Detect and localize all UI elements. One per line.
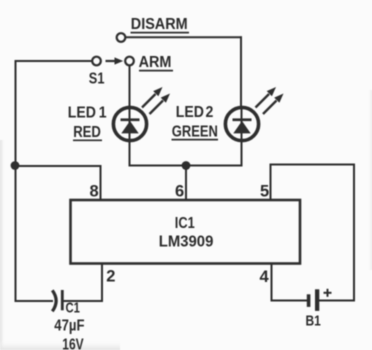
svg-text:IC1: IC1 [175,215,195,233]
edge shading [0,90,372,350]
wire LED2 to bottom [241,107,243,166]
wire LED bottom bus [130,165,242,167]
wire pin2 riser [101,264,103,302]
svg-text:4: 4 [260,268,270,286]
wire arm to LED1 [129,66,131,166]
wire pin6 riser [185,166,187,201]
switch terminal DISARM [117,33,126,42]
node junction left [11,161,20,170]
wire cap left [16,300,53,302]
LED1 [113,87,170,141]
svg-text:5: 5 [260,182,269,200]
label DISARM [131,15,190,33]
IC1 LM3909 box [71,200,301,264]
svg-text:LED: LED [68,103,96,121]
svg-text:DISARM: DISARM [131,15,188,33]
svg-text:ARM: ARM [139,53,172,71]
wire pin4 to battery [272,300,307,302]
label ARM [139,53,173,71]
svg-text:RED: RED [73,124,101,141]
wire pin5 riser [270,165,272,201]
LED2 [225,87,283,141]
svg-text:6: 6 [175,183,184,201]
svg-text:LED: LED [176,103,204,121]
svg-text:GREEN: GREEN [172,123,218,141]
switch S1 [92,57,134,66]
svg-text:LM3909: LM3909 [159,233,214,251]
wire disarm vertical to LED2 [240,37,242,107]
wire pin8 riser [100,166,102,200]
capacitor C1 [52,290,62,311]
node junction pin6 [182,161,191,170]
svg-text:47µF: 47µF [54,317,84,334]
wire pin4 riser [271,264,273,301]
wire junction to pin8 [16,165,101,167]
wire left rail [15,61,17,301]
wire right rail [353,165,355,301]
svg-text:S1: S1 [89,70,105,88]
label RED [73,124,102,141]
svg-text:C1: C1 [66,299,80,316]
battery B1 [307,289,332,311]
svg-text:1: 1 [99,103,107,121]
svg-text:8: 8 [90,182,99,200]
svg-text:2: 2 [206,103,214,121]
wire pin5 top horizontal [271,164,355,166]
label GREEN [172,123,219,141]
wire battery plus to right rail [319,300,354,302]
wire cap right to pin2 [62,300,102,302]
svg-text:16V: 16V [62,335,84,350]
svg-text:2: 2 [106,267,115,285]
wire S1 common left [16,60,93,62]
svg-text:B1: B1 [306,312,322,329]
wire disarm horizontal [126,36,241,38]
